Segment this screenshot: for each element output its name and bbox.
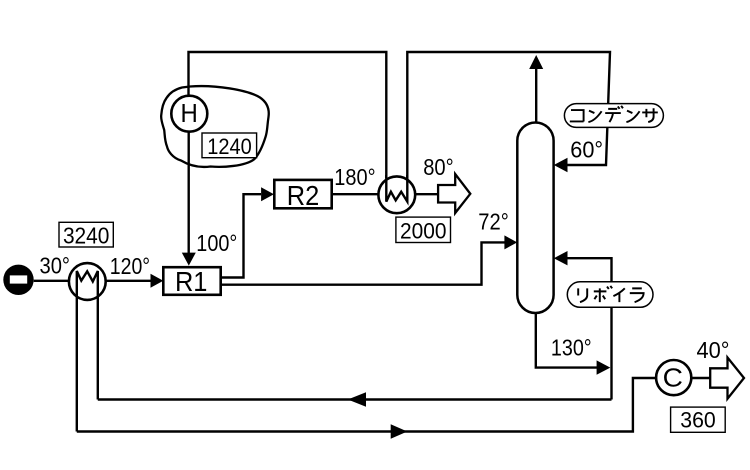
svg-text:80°: 80° <box>423 154 454 180</box>
wire E2 to product arrow <box>415 193 438 195</box>
svg-text:60°: 60° <box>570 137 603 163</box>
heater H circle <box>171 96 207 132</box>
katakana i <box>613 288 624 302</box>
katakana ri <box>578 288 587 302</box>
distillation column <box>517 123 553 314</box>
svg-text:R2: R2 <box>287 180 320 211</box>
svg-text:3240: 3240 <box>63 222 110 248</box>
svg-text:180°: 180° <box>334 164 375 190</box>
wire H loop: heater outlet up over top to condenser E2 and reflux into column <box>189 52 611 178</box>
label 360 box <box>671 407 726 432</box>
label 3240 box <box>59 222 113 247</box>
heat exchanger E1 (circle + zigzag tubes) <box>69 263 106 300</box>
svg-text:1240: 1240 <box>207 134 252 159</box>
arrowhead vapor up <box>529 55 543 69</box>
label 1240 box <box>202 133 257 158</box>
wire E1 outlet to cooler C (outer bottom line) <box>77 378 656 432</box>
katakana bo <box>594 286 612 302</box>
svg-text:H: H <box>180 100 197 128</box>
wire column bottoms to riser (130°) <box>536 313 597 368</box>
wire reboiler riser and return into column <box>566 258 612 399</box>
katakana ra <box>630 288 644 302</box>
svg-text:R1: R1 <box>175 266 208 297</box>
product outline arrow 40° <box>710 358 744 399</box>
reactor R1 <box>163 267 220 295</box>
svg-text:40°: 40° <box>697 337 730 363</box>
wire bottoms recycle to E1 (lower horizontal, flow left) <box>98 398 612 400</box>
arrowhead flow left <box>348 392 366 406</box>
svg-text:360: 360 <box>680 407 716 432</box>
svg-text:120°: 120° <box>110 253 150 279</box>
wire R1 to R2 <box>221 194 261 277</box>
reactor R2 <box>274 180 331 208</box>
wire feed to E1 <box>34 280 69 282</box>
product outline arrow 80° <box>438 174 470 213</box>
wire heater H to R1 (down arrow) <box>187 130 189 253</box>
wire R2 to E2 <box>332 193 379 195</box>
arrowhead into R1 <box>151 274 164 288</box>
svg-text:C: C <box>663 363 683 393</box>
heat exchanger E2 / condenser (circle + zigzag) <box>378 176 415 213</box>
arrowhead flow right <box>391 424 408 438</box>
reboiler pill label リボイラ <box>567 282 653 308</box>
feed source symbol <box>3 265 33 295</box>
wire E1 to R1 <box>106 280 152 282</box>
cooler C circle <box>656 360 691 395</box>
svg-text:2000: 2000 <box>400 218 447 243</box>
svg-text:100°: 100° <box>196 230 237 256</box>
arrowhead into R2 <box>261 187 274 201</box>
arrowhead into R1 top <box>182 253 196 266</box>
arrowhead reflux into column <box>554 158 568 172</box>
label 2000 box <box>396 217 451 242</box>
katakana n <box>626 111 639 122</box>
svg-text:72°: 72° <box>478 209 509 235</box>
katakana ko <box>570 110 584 121</box>
wire R1 feed to column (72°) <box>221 242 505 284</box>
wire C to product arrow <box>691 377 710 379</box>
svg-text:30°: 30° <box>40 253 71 279</box>
arrowhead reboiler return into column <box>554 251 568 265</box>
arrowhead feed into column <box>504 235 517 249</box>
arrowhead into riser <box>597 360 611 374</box>
steam blob around heater H <box>161 86 269 167</box>
katakana sa <box>642 108 658 122</box>
condenser pill label コンデンサ <box>564 104 663 128</box>
wire column overhead vapor (up arrow) <box>535 69 537 123</box>
svg-text:130°: 130° <box>551 335 592 361</box>
katakana n <box>588 111 601 122</box>
katakana de <box>605 106 623 122</box>
